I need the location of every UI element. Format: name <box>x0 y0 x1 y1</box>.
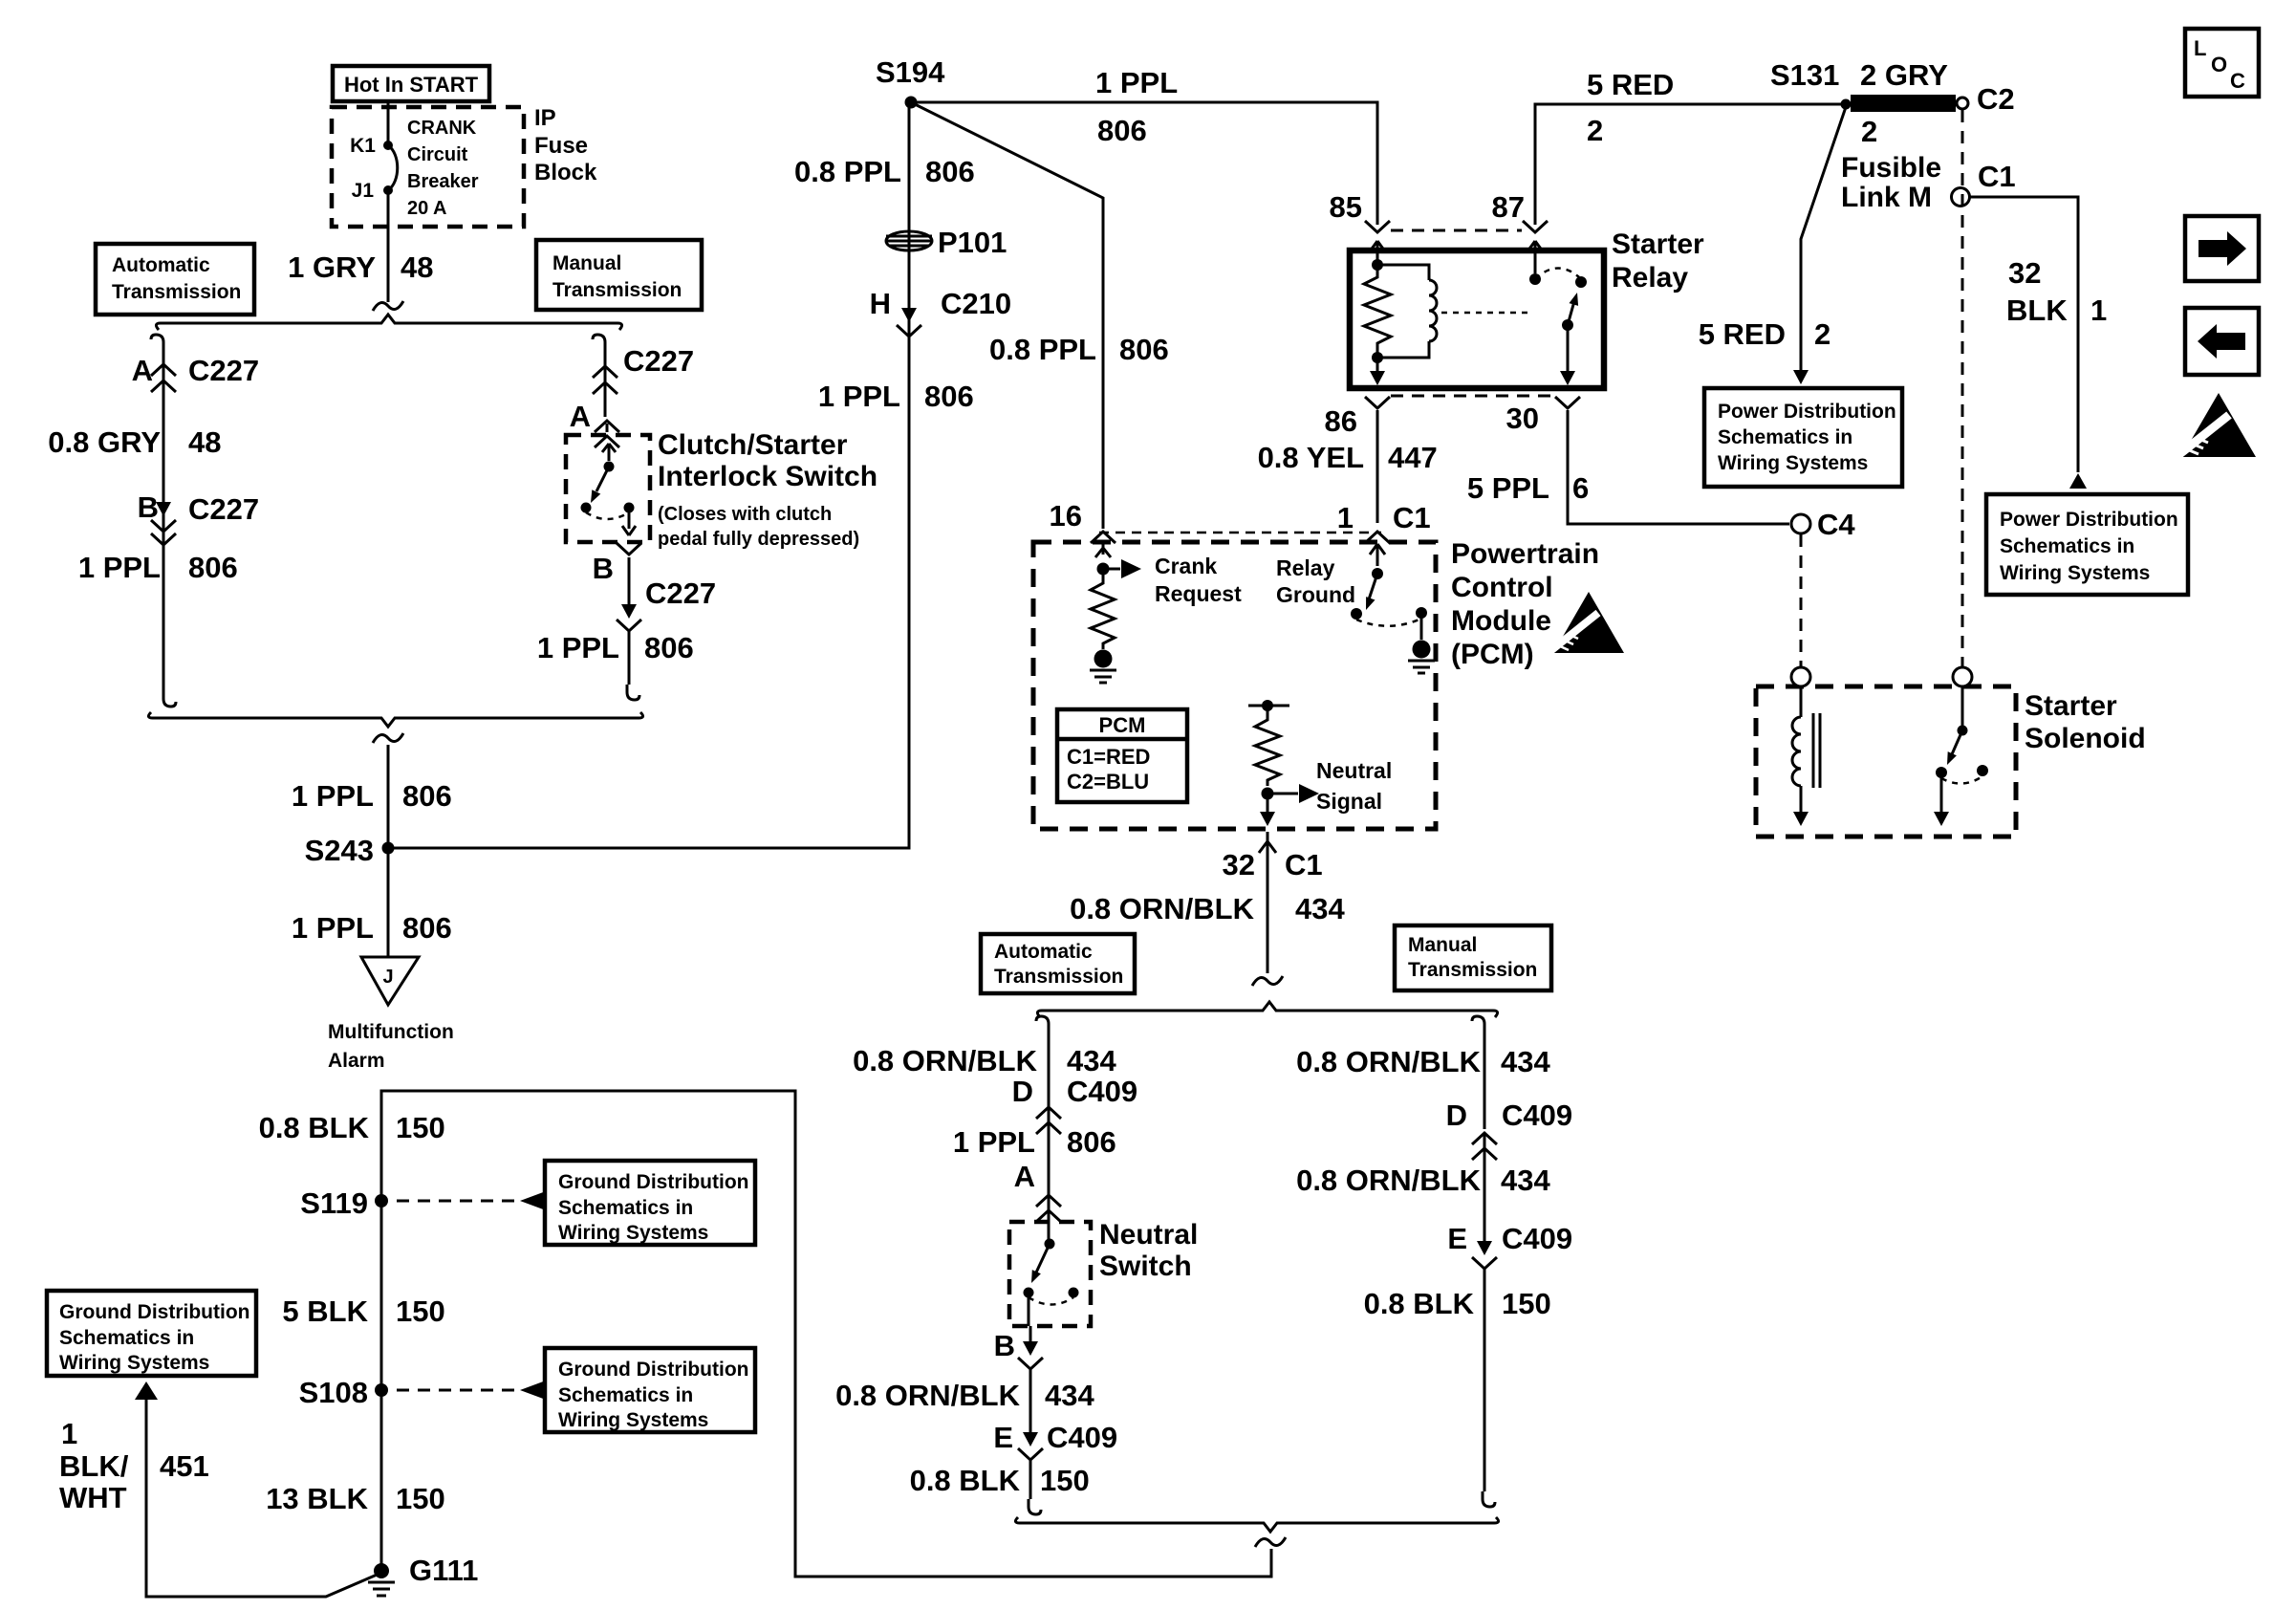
svg-text:48: 48 <box>188 425 221 459</box>
svg-text:Ground: Ground <box>1276 582 1355 607</box>
svg-text:806: 806 <box>1067 1125 1116 1159</box>
svg-text:Schematics in: Schematics in <box>2000 535 2134 557</box>
svg-text:Wiring Systems: Wiring Systems <box>59 1352 209 1374</box>
svg-text:2: 2 <box>1814 317 1830 351</box>
splice S194 <box>876 55 945 109</box>
solenoid right pin circle <box>1953 667 1972 686</box>
svg-text:Wiring Systems: Wiring Systems <box>558 1409 708 1431</box>
svg-text:A: A <box>132 354 153 387</box>
relay coil resistor (pin 85-86) <box>1364 241 1391 385</box>
svg-text:PCM: PCM <box>1099 713 1146 737</box>
svg-text:K1: K1 <box>350 135 376 157</box>
Manual Transmission box (middle) <box>1395 925 1551 990</box>
IP Fuse Block label <box>534 105 597 185</box>
splice S119 <box>300 1186 546 1220</box>
fusible link bar 2 GRY <box>1851 58 1956 112</box>
Ground Distribution box (left) <box>47 1291 256 1376</box>
wire 1 PPL 806 to S243 <box>387 745 390 957</box>
svg-text:0.8 BLK: 0.8 BLK <box>1364 1287 1475 1320</box>
Neutral Switch dashed box <box>1009 1222 1091 1326</box>
svg-text:B: B <box>593 552 614 585</box>
svg-text:2: 2 <box>1587 114 1603 147</box>
svg-text:Power Distribution: Power Distribution <box>2000 509 2178 531</box>
svg-text:Schematics in: Schematics in <box>558 1384 693 1406</box>
svg-text:P101: P101 <box>938 226 1007 259</box>
crank request circuit <box>1091 542 1242 649</box>
svg-text:C409: C409 <box>1502 1222 1572 1255</box>
svg-text:C2=BLU: C2=BLU <box>1067 770 1149 794</box>
svg-text:C210: C210 <box>941 287 1011 320</box>
svg-text:Block: Block <box>534 160 597 185</box>
svg-text:CRANK: CRANK <box>407 118 477 139</box>
svg-text:J: J <box>382 967 393 988</box>
svg-text:5 RED: 5 RED <box>1699 317 1786 351</box>
connector B C227 (manual side) <box>593 543 717 631</box>
svg-text:O: O <box>2211 53 2227 76</box>
Powertrain Control Module dashed box <box>1033 542 1436 829</box>
circuit breaker CRANK 20A (arc between K1 and J1) <box>350 118 479 219</box>
Ground Distribution box (S119) <box>545 1161 755 1245</box>
svg-text:0.8 ORN/BLK: 0.8 ORN/BLK <box>1070 892 1255 925</box>
svg-text:Interlock Switch: Interlock Switch <box>658 461 877 492</box>
svg-text:1 PPL: 1 PPL <box>292 911 374 945</box>
svg-text:451: 451 <box>160 1449 209 1483</box>
relay internal dashed link <box>1441 312 1529 315</box>
svg-text:A: A <box>1014 1160 1035 1193</box>
svg-text:(Closes with clutch: (Closes with clutch <box>658 504 832 525</box>
svg-text:434: 434 <box>1501 1164 1550 1197</box>
svg-text:Ground Distribution: Ground Distribution <box>558 1359 748 1381</box>
svg-text:6: 6 <box>1572 471 1589 505</box>
Starter Relay box <box>1350 250 1604 388</box>
Multifunction Alarm triangle J <box>328 957 454 1072</box>
top wire 1 PPL 806 from S194 to relay 85 <box>911 102 1377 225</box>
automatic branch wire <box>1036 1016 1049 1032</box>
relay coil <box>1377 265 1437 358</box>
wire 32 BLK 1 from C1 <box>1970 197 2107 489</box>
svg-text:Schematics in: Schematics in <box>1718 426 1852 448</box>
svg-text:0.8 PPL: 0.8 PPL <box>989 333 1096 366</box>
PCM connector dashed line <box>1099 532 1381 534</box>
svg-text:IP: IP <box>534 105 556 131</box>
svg-text:0.8 BLK: 0.8 BLK <box>910 1464 1021 1497</box>
ESD warning symbol (right column) <box>2178 393 2256 457</box>
svg-text:Transmission: Transmission <box>994 966 1123 988</box>
svg-text:Wiring Systems: Wiring Systems <box>2000 562 2150 584</box>
Starter Solenoid dashed box <box>1756 686 2016 837</box>
Hot In START box <box>333 66 489 101</box>
svg-text:Ground Distribution: Ground Distribution <box>558 1171 748 1193</box>
svg-text:806: 806 <box>1097 114 1147 147</box>
Powertrain Control Module (PCM) label <box>1451 538 1599 670</box>
ground (crank request) <box>1090 650 1116 684</box>
neutral switch contacts <box>1024 1222 1079 1326</box>
svg-text:Manual: Manual <box>1408 934 1477 956</box>
connector C4 <box>1791 508 1855 541</box>
wire 0.8 YEL 447 from pin 86 <box>1376 410 1379 523</box>
svg-text:C227: C227 <box>623 344 694 378</box>
svg-text:150: 150 <box>396 1111 445 1144</box>
relay ground circuit <box>1276 544 1427 640</box>
connector B below neutral switch <box>994 1326 1043 1369</box>
svg-text:32: 32 <box>2008 256 2041 290</box>
svg-text:806: 806 <box>402 779 452 813</box>
Manual Transmission box (top) <box>536 240 702 310</box>
ground return wire to left chain <box>381 1091 1271 1577</box>
svg-text:S131: S131 <box>1770 58 1839 92</box>
solenoid switch <box>1934 686 1988 826</box>
ESD warning symbol (PCM) <box>1550 592 1624 653</box>
split brace for transmission options <box>156 315 621 330</box>
svg-text:0.8 ORN/BLK: 0.8 ORN/BLK <box>835 1379 1021 1412</box>
svg-text:0.8 PPL: 0.8 PPL <box>794 155 901 188</box>
svg-text:1 PPL: 1 PPL <box>953 1125 1035 1159</box>
svg-text:20 A: 20 A <box>407 198 447 219</box>
ground G111 <box>368 1554 478 1596</box>
svg-text:C1: C1 <box>1393 501 1431 534</box>
svg-text:806: 806 <box>1119 333 1169 366</box>
svg-text:Link M: Link M <box>1841 182 1932 213</box>
svg-text:30: 30 <box>1506 402 1539 435</box>
interlock switch contacts <box>581 424 637 535</box>
grommet P101 <box>886 226 1007 259</box>
svg-text:Automatic: Automatic <box>112 254 210 276</box>
svg-text:1 PPL: 1 PPL <box>818 380 900 413</box>
svg-text:806: 806 <box>188 551 238 584</box>
LOC icon box <box>2185 29 2259 97</box>
svg-text:Request: Request <box>1155 581 1242 606</box>
dashed wire C4 to starter solenoid <box>1800 534 1803 666</box>
svg-text:S243: S243 <box>305 834 374 867</box>
svg-text:1 GRY: 1 GRY <box>288 250 376 284</box>
connector D C409 (manual) <box>1446 1099 1573 1160</box>
svg-text:16: 16 <box>1050 499 1082 533</box>
svg-text:2 GRY: 2 GRY <box>1860 58 1948 92</box>
svg-text:806: 806 <box>644 631 694 664</box>
svg-text:5 RED: 5 RED <box>1587 68 1674 101</box>
svg-text:C227: C227 <box>188 492 259 526</box>
merge brace below transmission branches <box>148 712 642 727</box>
svg-text:2: 2 <box>1861 115 1877 148</box>
PCM identification box <box>1057 709 1187 802</box>
svg-text:S108: S108 <box>299 1376 368 1409</box>
svg-text:C1=RED: C1=RED <box>1067 745 1150 769</box>
svg-text:A: A <box>570 400 591 433</box>
relay switch (pin 87-30) <box>1527 241 1587 385</box>
svg-text:Power Distribution: Power Distribution <box>1718 401 1896 423</box>
relay connector dashes (bottom) <box>1365 397 1390 408</box>
left branch wire (automatic) <box>151 335 163 350</box>
pin 1 C1 (PCM) <box>1337 501 1431 543</box>
svg-text:Alarm: Alarm <box>328 1050 385 1072</box>
svg-text:1: 1 <box>61 1417 77 1450</box>
svg-text:C227: C227 <box>188 354 259 387</box>
svg-text:0.8 GRY: 0.8 GRY <box>48 425 161 459</box>
svg-text:85: 85 <box>1330 190 1362 224</box>
svg-text:WHT: WHT <box>59 1481 127 1514</box>
svg-text:Wiring Systems: Wiring Systems <box>1718 452 1868 474</box>
svg-text:L: L <box>2194 36 2206 60</box>
wire 1 BLK/WHT 451 to G111 <box>59 1382 381 1597</box>
left arrow icon box <box>2185 308 2259 375</box>
diagonal wire from S194 to PCM pin 16 <box>911 102 1103 529</box>
connector E C409 (manual) <box>1447 1222 1572 1269</box>
svg-text:C409: C409 <box>1502 1099 1572 1132</box>
svg-text:0.8 ORN/BLK: 0.8 ORN/BLK <box>1296 1164 1482 1197</box>
svg-text:86: 86 <box>1325 404 1357 438</box>
svg-text:447: 447 <box>1388 441 1438 474</box>
svg-text:Schematics in: Schematics in <box>558 1197 693 1219</box>
svg-text:J1: J1 <box>352 180 375 202</box>
svg-text:Schematics in: Schematics in <box>59 1327 194 1349</box>
neutral signal circuit <box>1248 700 1392 826</box>
svg-text:13 BLK: 13 BLK <box>266 1482 368 1515</box>
svg-text:5 BLK: 5 BLK <box>282 1295 368 1328</box>
wire from S243 to middle column <box>388 102 909 848</box>
svg-text:806: 806 <box>924 380 974 413</box>
svg-text:1 PPL: 1 PPL <box>78 551 161 584</box>
svg-text:Clutch/Starter: Clutch/Starter <box>658 429 848 461</box>
relay connector dashes (top) <box>1365 221 1390 232</box>
svg-text:B: B <box>138 490 159 524</box>
wire 5 RED 2 to S131 <box>1535 104 1844 225</box>
connector A C227 <box>132 354 260 392</box>
splice S243 <box>305 834 395 867</box>
svg-text:(PCM): (PCM) <box>1451 639 1534 670</box>
svg-text:Transmission: Transmission <box>1408 959 1537 981</box>
svg-text:Fuse: Fuse <box>534 133 588 159</box>
merge brace (bottom) <box>1015 1517 1498 1532</box>
svg-text:434: 434 <box>1501 1045 1550 1078</box>
svg-text:Crank: Crank <box>1155 554 1217 578</box>
svg-text:H: H <box>870 287 891 320</box>
svg-text:150: 150 <box>1502 1287 1551 1320</box>
Automatic Transmission box (top left) <box>96 244 254 315</box>
svg-text:Relay: Relay <box>1276 555 1335 580</box>
svg-text:Multifunction: Multifunction <box>328 1021 454 1043</box>
svg-text:E: E <box>1447 1222 1467 1255</box>
svg-text:Circuit: Circuit <box>407 144 468 165</box>
svg-text:D: D <box>1446 1099 1467 1132</box>
svg-text:Transmission: Transmission <box>112 281 241 303</box>
svg-text:Module: Module <box>1451 605 1551 637</box>
wire 1 GRY 48 below fuse block <box>387 190 390 302</box>
connector 32 C1 below PCM <box>1223 832 1323 881</box>
svg-text:1 PPL: 1 PPL <box>1095 66 1178 99</box>
svg-text:434: 434 <box>1045 1379 1094 1412</box>
svg-text:434: 434 <box>1067 1044 1116 1077</box>
Clutch/Starter Interlock Switch dashed box <box>566 435 650 542</box>
connector H C210 <box>870 287 1012 337</box>
dashed wire C2 to starter solenoid <box>1961 110 1964 666</box>
svg-text:D: D <box>1012 1075 1033 1108</box>
svg-text:Starter: Starter <box>1612 228 1704 260</box>
wire 5 PPL 6 from pin 30 to C4 <box>1568 410 1789 524</box>
svg-text:32: 32 <box>1223 848 1255 881</box>
Ground Distribution box (S108) <box>545 1348 755 1432</box>
svg-text:C4: C4 <box>1817 508 1855 541</box>
label 2 Fusible Link M <box>1841 115 1941 213</box>
svg-text:Transmission: Transmission <box>552 279 682 301</box>
ground (relay ground) <box>1408 641 1435 674</box>
svg-text:0.8 YEL: 0.8 YEL <box>1258 441 1364 474</box>
wire from Hot In START into fuse block <box>387 103 390 145</box>
solenoid left pin circle <box>1791 667 1810 686</box>
split brace (transmission, middle) <box>1037 1002 1497 1017</box>
connector C227 (manual side) <box>593 344 694 394</box>
svg-text:Neutral: Neutral <box>1099 1219 1198 1251</box>
solenoid coil <box>1792 686 1820 826</box>
wire 5 RED 2 diagonal to power distribution <box>1699 107 1846 384</box>
Power Distribution box 2 <box>1986 494 2188 595</box>
svg-text:G111: G111 <box>409 1554 478 1587</box>
svg-text:C227: C227 <box>645 577 716 610</box>
splice S131 <box>1770 58 1852 110</box>
svg-text:Solenoid: Solenoid <box>2025 723 2146 754</box>
svg-text:Breaker: Breaker <box>407 171 479 192</box>
svg-text:Powertrain: Powertrain <box>1451 538 1599 570</box>
svg-text:0.8 ORN/BLK: 0.8 ORN/BLK <box>1296 1045 1482 1078</box>
svg-text:0.8 BLK: 0.8 BLK <box>259 1111 370 1144</box>
connector C1 (fusible link side) <box>1952 160 2016 207</box>
svg-text:C409: C409 <box>1047 1421 1117 1454</box>
svg-text:C: C <box>2230 69 2245 93</box>
connector C2 <box>1957 82 2015 116</box>
svg-text:C409: C409 <box>1067 1075 1137 1108</box>
Power Distribution box 1 <box>1704 388 1902 487</box>
manual branch wire <box>1472 1016 1484 1032</box>
Automatic Transmission box (middle) <box>981 934 1135 993</box>
Clutch/Starter Interlock Switch label <box>658 429 877 550</box>
connector E C409 (auto) <box>993 1369 1117 1460</box>
Starter Relay label <box>1612 228 1704 294</box>
svg-text:434: 434 <box>1295 892 1345 925</box>
svg-text:C1: C1 <box>1978 160 2016 193</box>
svg-text:S119: S119 <box>300 1186 368 1220</box>
svg-text:C2: C2 <box>1977 82 2015 116</box>
svg-text:B: B <box>994 1329 1015 1362</box>
svg-text:150: 150 <box>396 1482 445 1515</box>
svg-text:1 PPL: 1 PPL <box>537 631 619 664</box>
IP Fuse Block dashed box <box>332 107 524 227</box>
svg-text:BLK/: BLK/ <box>59 1449 129 1483</box>
connector B C227 <box>138 490 260 545</box>
svg-text:Neutral: Neutral <box>1316 758 1392 783</box>
svg-text:806: 806 <box>925 155 975 188</box>
svg-text:Switch: Switch <box>1099 1251 1192 1282</box>
Starter Solenoid label <box>2025 690 2146 754</box>
svg-text:48: 48 <box>401 250 433 284</box>
svg-text:Automatic: Automatic <box>994 941 1093 963</box>
Neutral Switch label <box>1099 1219 1198 1282</box>
svg-text:pedal fully depressed): pedal fully depressed) <box>658 529 859 550</box>
svg-text:Signal: Signal <box>1316 789 1382 814</box>
svg-text:E: E <box>993 1421 1013 1454</box>
svg-text:87: 87 <box>1492 190 1525 224</box>
svg-text:BLK: BLK <box>2006 294 2068 327</box>
wire 0.8 ORN/BLK 434 below PCM <box>1267 856 1269 973</box>
svg-text:C1: C1 <box>1285 848 1323 881</box>
svg-text:Fusible: Fusible <box>1841 152 1941 184</box>
pin 16 <box>1050 499 1116 543</box>
svg-text:150: 150 <box>396 1295 445 1328</box>
svg-text:S194: S194 <box>876 55 945 89</box>
svg-text:1: 1 <box>2090 294 2107 327</box>
right arrow icon box <box>2185 216 2259 281</box>
svg-text:1: 1 <box>1337 501 1354 534</box>
svg-text:Relay: Relay <box>1612 262 1688 294</box>
svg-text:5 PPL: 5 PPL <box>1467 471 1549 505</box>
right branch wire (manual) <box>593 335 605 350</box>
connector D C409 (auto) <box>1012 1075 1138 1134</box>
splice S108 <box>299 1376 546 1409</box>
svg-text:Manual: Manual <box>552 252 621 274</box>
svg-text:Hot In START: Hot In START <box>344 73 479 97</box>
svg-text:0.8 ORN/BLK: 0.8 ORN/BLK <box>853 1044 1038 1077</box>
svg-text:Wiring Systems: Wiring Systems <box>558 1222 708 1244</box>
svg-text:Ground Distribution: Ground Distribution <box>59 1301 249 1323</box>
svg-text:150: 150 <box>1040 1464 1090 1497</box>
svg-text:Starter: Starter <box>2025 690 2117 722</box>
svg-text:1 PPL: 1 PPL <box>292 779 374 813</box>
svg-text:Control: Control <box>1451 572 1553 603</box>
svg-text:806: 806 <box>402 911 452 945</box>
